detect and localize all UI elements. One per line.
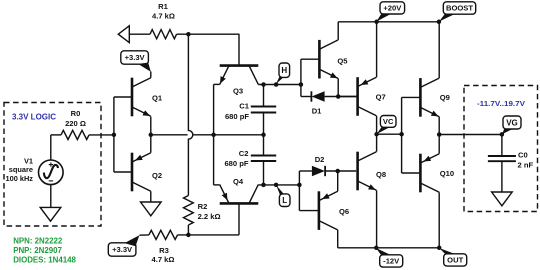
svg-text:D1: D1: [312, 107, 322, 116]
3.3V logic dashed box: [4, 103, 101, 227]
svg-text:Q4: Q4: [233, 177, 244, 186]
label C2 680pF: [224, 149, 248, 168]
label R3 4.7k: [152, 246, 175, 264]
output dashed box: [464, 86, 538, 212]
wire Q4 collector / L wire: [258, 184, 299, 186]
transistor Q2: [132, 153, 151, 192]
node VC: [374, 132, 379, 137]
wire left column: [213, 84, 215, 184]
wire Q4 base: [238, 203, 240, 235]
label Q5: [337, 56, 348, 65]
svg-text:R0: R0: [71, 109, 81, 118]
node emitters: [149, 133, 154, 138]
svg-text:BOOST: BOOST: [446, 4, 473, 13]
svg-text:+3.3V: +3.3V: [125, 53, 146, 62]
svg-text:C2: C2: [239, 149, 249, 158]
wire Q9 Q10 base vertical: [402, 97, 421, 173]
label C0 2nF: [518, 150, 534, 169]
resistor R2: [184, 196, 194, 235]
transistor Q10: [420, 154, 439, 193]
wire Q1 emitter: [150, 117, 152, 135]
svg-text:Q6: Q6: [339, 207, 349, 216]
svg-text:C1: C1: [239, 102, 249, 111]
wire Q9 emitter: [438, 117, 440, 135]
wire V1 top: [50, 135, 52, 160]
capacitor C2: [251, 135, 276, 185]
svg-text:220 Ω: 220 Ω: [65, 119, 86, 128]
svg-text:R1: R1: [158, 2, 168, 11]
node D1 anode: [336, 94, 341, 99]
note transistor types: [13, 237, 76, 265]
node +20V: [374, 20, 379, 25]
svg-text:H: H: [281, 66, 287, 75]
svg-text:Q7: Q7: [376, 93, 386, 102]
label Q2: [152, 171, 162, 180]
svg-text:DIODES: 1N4148: DIODES: 1N4148: [13, 256, 76, 265]
svg-text:Q8: Q8: [376, 170, 386, 179]
port arrow left: [118, 26, 129, 43]
wire Q3 emitter jog: [214, 83, 220, 85]
node R2 bottom: [186, 233, 191, 238]
wire Q7 collector: [376, 116, 378, 134]
node OUT: [437, 246, 442, 251]
transistor Q8: [358, 152, 377, 191]
svg-text:VG: VG: [506, 118, 518, 127]
svg-text:4.7 kΩ: 4.7 kΩ: [152, 11, 175, 20]
svg-text:2 nF: 2 nF: [518, 160, 534, 169]
supply +3.3V bottom: [108, 235, 139, 256]
transistor Q3: [220, 66, 259, 85]
label Q4: [233, 177, 244, 186]
svg-text:R3: R3: [159, 246, 169, 255]
label D1: [312, 107, 322, 116]
svg-text:PNP: 2N2907: PNP: 2N2907: [13, 246, 62, 255]
svg-text:NPN: 2N2222: NPN: 2N2222: [13, 237, 63, 246]
wire Q5 collector: [337, 22, 339, 40]
wire Q6 base network: [299, 171, 319, 211]
capacitor C1: [251, 85, 276, 135]
svg-text:3.3V LOGIC: 3.3V LOGIC: [12, 113, 56, 122]
transistor Q6: [319, 191, 338, 230]
svg-text:VC: VC: [383, 117, 394, 126]
capacitor C0: [488, 135, 516, 193]
wire Q2 collector: [150, 191, 152, 202]
svg-text:680 pF: 680 pF: [225, 112, 249, 121]
transistor Q9: [420, 78, 439, 117]
wire VG: [439, 134, 502, 136]
svg-text:Q10: Q10: [440, 169, 454, 178]
wire Q1 collector: [150, 72, 152, 78]
svg-text:Q3: Q3: [233, 86, 243, 95]
node C1 top: [261, 82, 266, 87]
svg-text:-12V: -12V: [383, 257, 400, 266]
transistor Q5: [319, 40, 338, 79]
diode D1: [311, 91, 357, 101]
wire Q7 emitter: [376, 22, 378, 77]
ground below C0: [492, 192, 513, 206]
net label BOOST: [439, 2, 476, 22]
supply -12V: [376, 248, 403, 267]
node C2 bottom: [261, 183, 266, 188]
node C0 top: [500, 132, 505, 137]
wire Q5 emitter: [337, 79, 339, 97]
wire emitter output: [151, 134, 264, 136]
voltage source V1: [39, 160, 64, 185]
wire Q5 base network: [301, 59, 320, 96]
svg-text:OUT: OUT: [447, 256, 463, 265]
svg-text:D2: D2: [315, 155, 325, 164]
svg-text:680 pF: 680 pF: [224, 159, 248, 168]
supply +3.3V top: [121, 51, 151, 72]
transistor Q4: [220, 185, 259, 204]
wire Q8 collector: [376, 134, 378, 152]
label V1 square 100 kHz: [5, 157, 33, 183]
node VG junction: [437, 132, 442, 137]
resistor R1: [129, 30, 239, 39]
svg-text:Q1: Q1: [152, 94, 163, 103]
label R1 4.7k: [152, 2, 175, 20]
net label VG: [502, 116, 521, 134]
wire Q9 collector: [438, 22, 440, 78]
label Q8: [376, 170, 386, 179]
label Q6: [339, 207, 349, 216]
svg-text:100 kHz: 100 kHz: [5, 174, 33, 183]
net label L: [276, 185, 290, 206]
ground below Q2: [141, 202, 162, 216]
ground below V1: [40, 207, 61, 221]
resistor R3: [139, 230, 239, 239]
wire Q10 emitter: [438, 135, 440, 154]
svg-text:C0: C0: [518, 150, 528, 159]
label Q7: [376, 93, 386, 102]
net label OUT: [439, 248, 466, 266]
label output swing: [477, 99, 525, 108]
label Q3: [233, 86, 243, 95]
label C1 680pF: [225, 102, 250, 121]
transistor Q1: [132, 78, 151, 117]
svg-text:+3.3V: +3.3V: [112, 245, 133, 254]
wire Q6 emitter: [337, 171, 339, 191]
wire Q3 base: [238, 34, 240, 65]
label R0 220: [65, 109, 86, 128]
label Q9: [440, 93, 450, 102]
label Q1: [152, 94, 163, 103]
node H wire end: [299, 82, 304, 87]
transistor Q7: [339, 77, 377, 116]
svg-text:4.7 kΩ: 4.7 kΩ: [152, 255, 175, 264]
net label H: [276, 63, 290, 84]
resistor R0: [51, 130, 114, 139]
wire Q2 emitter: [150, 135, 152, 153]
node L tap: [274, 183, 279, 188]
wire Q8 emitter: [376, 190, 378, 248]
wire V1 bottom: [50, 185, 52, 208]
wire +20V rail: [338, 21, 439, 23]
node -12V: [374, 246, 379, 251]
node L wire end: [297, 183, 302, 188]
node C mid: [261, 133, 266, 138]
net label VC: [377, 116, 396, 135]
label Q10: [440, 169, 454, 178]
supply +20V: [376, 2, 404, 22]
label R2 2.2k: [198, 202, 221, 221]
svg-text:Q2: Q2: [152, 171, 162, 180]
svg-text:R2: R2: [198, 202, 208, 211]
wire -12V rail: [338, 247, 440, 249]
node H tap: [274, 82, 279, 87]
node base column: [399, 132, 404, 137]
label 3.3V LOGIC: [12, 113, 56, 122]
node BOOST: [437, 20, 442, 25]
node base junction: [112, 133, 117, 138]
wire Q1 Q2 base vertical: [114, 97, 132, 172]
diode D2: [312, 166, 356, 176]
node left column: [211, 133, 216, 138]
svg-text:-11.7V..19.7V: -11.7V..19.7V: [477, 99, 525, 108]
wire Q3 collector / H wire: [258, 84, 301, 86]
wire Q6 collector: [337, 230, 339, 248]
svg-text:Q9: Q9: [440, 93, 450, 102]
node R1 out: [186, 32, 191, 37]
svg-text:2.2 kΩ: 2.2 kΩ: [198, 212, 221, 221]
svg-text:Q5: Q5: [337, 56, 348, 65]
wire Q4 emitter jog: [214, 184, 220, 186]
wire VC to bases: [377, 133, 402, 135]
wire bias vertical with hop: [188, 34, 192, 195]
svg-text:L: L: [282, 196, 287, 205]
label D2: [315, 155, 325, 164]
wire Q10 collector: [438, 192, 440, 248]
svg-text:+20V: +20V: [383, 4, 402, 13]
node D2 cathode: [335, 169, 340, 174]
